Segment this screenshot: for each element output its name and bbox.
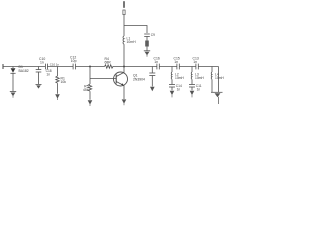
capacitor C9: [144, 33, 150, 35]
wire: [191, 87, 193, 90]
capacitor C17 shunt: [38, 67, 40, 70]
svg-text:1n: 1n: [197, 88, 201, 92]
svg-text:45k: 45k: [83, 88, 89, 92]
capacitor C15 series: [176, 64, 178, 70]
wire branch to crystal: [124, 26, 147, 34]
inductor L1: [123, 36, 124, 44]
ground: [170, 91, 175, 98]
ground: [144, 51, 150, 57]
svg-text:BA182: BA182: [19, 69, 29, 73]
inductor L4: [210, 72, 213, 79]
capacitor C16 series: [156, 64, 158, 70]
transistor Q1: [114, 72, 128, 86]
wire branch L3: [191, 67, 193, 73]
resistor R4 series: [105, 65, 114, 68]
input terminal: [2, 64, 4, 69]
wire rail end corner: [218, 67, 220, 93]
ground: [88, 100, 93, 106]
svg-text:2N3904: 2N3904: [133, 77, 145, 81]
wire: [211, 79, 213, 92]
capacitor C14: [169, 84, 175, 86]
svg-text:1n: 1n: [174, 60, 178, 64]
capacitor C13 series: [195, 64, 197, 70]
wire main rail segment 2: [48, 66, 73, 68]
wire R5 to ground: [89, 79, 91, 85]
svg-text:1n: 1n: [46, 72, 50, 76]
wire main rail segment 3: [76, 66, 105, 68]
wire main rail segment 6: [180, 66, 196, 68]
ground: [36, 84, 42, 88]
antenna: [123, 1, 125, 8]
wire emitter: [123, 86, 125, 99]
svg-text:10k: 10k: [61, 80, 67, 84]
wire antenna down: [123, 15, 125, 36]
wire R1 to ground: [57, 83, 59, 94]
wire main rail segment 1: [3, 66, 45, 68]
svg-text:10mH: 10mH: [175, 76, 184, 80]
node base junction: [89, 66, 91, 68]
wire collector: [123, 67, 125, 73]
svg-text:C10 1n: C10 1n: [50, 63, 60, 67]
node collector junction: [123, 66, 125, 68]
wire cap to ground: [38, 72, 40, 84]
ground: [190, 91, 195, 98]
capacitor shunt C19: [151, 67, 153, 73]
ground: [211, 92, 223, 104]
svg-text:10mH: 10mH: [127, 40, 137, 44]
wire: [191, 79, 193, 84]
capacitor C12 series: [72, 64, 74, 70]
wire main rail segment 4: [113, 66, 157, 68]
wire main rail segment 5: [160, 66, 177, 68]
inductor L2: [170, 72, 173, 79]
wire base horizontal: [90, 78, 116, 80]
svg-text:1n: 1n: [40, 61, 44, 65]
svg-text:1n: 1n: [193, 60, 197, 64]
svg-text:1n: 1n: [154, 60, 158, 64]
wire: [151, 76, 153, 87]
ground: [150, 87, 155, 91]
wire diode to ground: [12, 73, 14, 91]
wire: [171, 87, 173, 90]
crystal X1: [145, 41, 149, 47]
ground: [122, 99, 127, 105]
ground: [10, 92, 16, 98]
wire: [146, 37, 148, 41]
svg-text:C9: C9: [151, 33, 155, 37]
wire: [171, 79, 173, 84]
svg-text:10mH: 10mH: [195, 76, 204, 80]
wire branch R1: [57, 67, 59, 77]
capacitor C11: [189, 84, 195, 86]
wire L1 to rail: [123, 44, 125, 66]
svg-text:10p: 10p: [71, 59, 77, 63]
resistor R1: [56, 76, 59, 83]
svg-text:10mH: 10mH: [215, 76, 224, 80]
svg-text:1n: 1n: [177, 88, 181, 92]
wire branch L4: [211, 67, 213, 73]
resistor R5: [88, 84, 91, 91]
wire main rail segment 7: [199, 66, 219, 68]
wire: [146, 47, 148, 51]
capacitor C10 series: [44, 64, 46, 70]
svg-text:68R: 68R: [105, 61, 112, 65]
wire base drop: [89, 67, 91, 79]
ground: [55, 94, 60, 100]
inductor L3: [190, 72, 193, 79]
diode D1: [12, 67, 14, 69]
wire branch L2: [171, 67, 173, 73]
